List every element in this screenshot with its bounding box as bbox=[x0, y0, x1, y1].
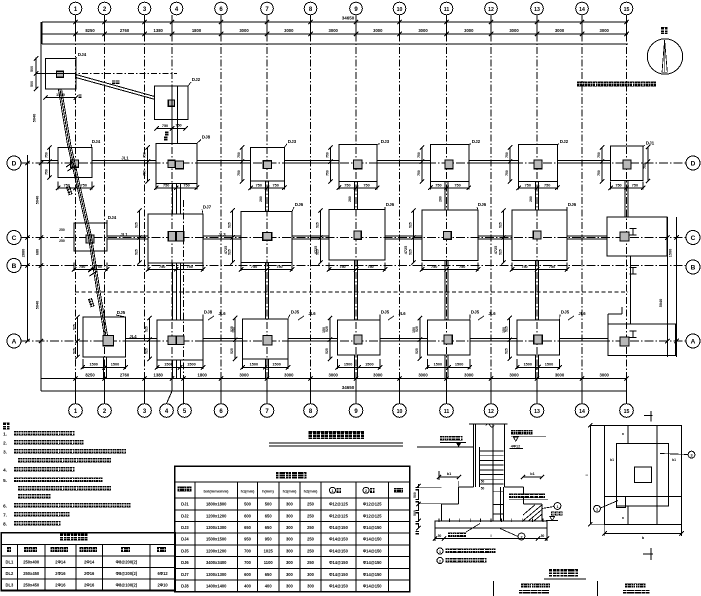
level mark outdoor -0.450 bbox=[440, 436, 462, 441]
top axis tick 15 bbox=[626, 22, 628, 34]
footing DJ4 C1 bbox=[74, 223, 107, 251]
svg-text:525: 525 bbox=[316, 222, 320, 228]
selection table headers bbox=[178, 487, 192, 492]
svg-text:750: 750 bbox=[339, 265, 345, 269]
A footing bottom dim 1500x1500 bbox=[516, 359, 518, 369]
svg-text:Φ14@150: Φ14@150 bbox=[363, 560, 382, 565]
beam stub left of D1 bbox=[41, 159, 58, 161]
svg-text:750: 750 bbox=[459, 265, 465, 269]
svg-text:1500: 1500 bbox=[56, 92, 66, 97]
svg-text:h2(mm): h2(mm) bbox=[304, 489, 318, 493]
note line cont bbox=[18, 486, 111, 491]
main title jichu jiegou pingmiantu bbox=[309, 431, 365, 439]
svg-text:JL4: JL4 bbox=[129, 334, 137, 339]
svg-text:750: 750 bbox=[549, 265, 555, 269]
footing base plate bbox=[435, 521, 547, 528]
svg-text:Φ14@150: Φ14@150 bbox=[329, 560, 348, 565]
bottom band tick 10 bbox=[399, 379, 401, 392]
axis line D bbox=[21, 162, 686, 164]
grid bubble top 8 bbox=[304, 2, 317, 15]
column of C15 bbox=[620, 232, 629, 241]
svg-text:750: 750 bbox=[143, 152, 147, 158]
note line under compass bbox=[577, 82, 656, 87]
svg-text:DJ8: DJ8 bbox=[202, 135, 211, 140]
svg-text:bxl(mmxmm): bxl(mmxmm) bbox=[204, 488, 230, 493]
svg-text:4725: 4725 bbox=[404, 246, 408, 254]
axis grid line 2 bbox=[104, 22, 106, 391]
svg-text:525: 525 bbox=[228, 222, 232, 228]
svg-text:2Φ14: 2Φ14 bbox=[55, 559, 66, 564]
axis grid line 15 bbox=[626, 22, 628, 391]
svg-text:1500: 1500 bbox=[111, 363, 119, 367]
top footing left dim bbox=[35, 58, 37, 90]
svg-text:750: 750 bbox=[276, 265, 282, 269]
svg-text:3000: 3000 bbox=[284, 373, 294, 378]
svg-text:3400x3400: 3400x3400 bbox=[206, 560, 227, 565]
svg-text:n: n bbox=[621, 517, 625, 519]
section bottom dim bbox=[435, 538, 547, 540]
auxiliary dashed axis top row bbox=[36, 73, 177, 75]
notes header zhu bbox=[3, 423, 9, 430]
svg-text:750: 750 bbox=[237, 170, 241, 176]
diagonal wall (stepped foundation) bbox=[58, 89, 104, 336]
axis grid line 14 bbox=[581, 22, 583, 391]
grid bubble bottom 9 bbox=[349, 404, 363, 418]
svg-text:12: 12 bbox=[488, 7, 494, 13]
D footing left dim bbox=[329, 147, 331, 181]
column of DJ6 C7 bbox=[263, 233, 272, 241]
svg-text:1380: 1380 bbox=[154, 28, 164, 33]
svg-text:2760: 2760 bbox=[120, 373, 130, 378]
svg-text:1500: 1500 bbox=[344, 363, 352, 367]
svg-text:300: 300 bbox=[286, 513, 294, 518]
svg-text:h1(mm): h1(mm) bbox=[283, 489, 297, 493]
svg-text:Φ14@150: Φ14@150 bbox=[363, 548, 382, 553]
plan detail inner footing edge bbox=[616, 444, 668, 506]
svg-text:1.: 1. bbox=[3, 432, 7, 437]
svg-text:C: C bbox=[12, 235, 17, 242]
svg-text:A: A bbox=[12, 339, 17, 346]
section cut symbol top bbox=[644, 415, 653, 417]
svg-text:2: 2 bbox=[439, 559, 441, 563]
axis grid line 8 bbox=[310, 22, 312, 391]
svg-text:DJ5: DJ5 bbox=[561, 310, 570, 315]
section cut symbol bottom bbox=[643, 553, 653, 555]
svg-text:Φ8@200(2): Φ8@200(2) bbox=[116, 571, 138, 576]
svg-text:2Φ16: 2Φ16 bbox=[55, 571, 66, 576]
svg-text:1300x1300: 1300x1300 bbox=[206, 525, 227, 530]
svg-text:2Φ16: 2Φ16 bbox=[84, 571, 95, 576]
note line cont bbox=[18, 494, 50, 499]
svg-text:750: 750 bbox=[325, 170, 329, 176]
svg-text:Φ14@150: Φ14@150 bbox=[329, 548, 348, 553]
C footing bottom dim 750x750 bbox=[328, 263, 330, 272]
svg-text:1500: 1500 bbox=[455, 363, 463, 367]
svg-text:3000: 3000 bbox=[555, 373, 565, 378]
section cut mark I bbox=[630, 330, 637, 332]
svg-text:DJ4: DJ4 bbox=[181, 537, 189, 542]
top axis tick 8 bbox=[310, 22, 312, 34]
A footing bottom dim 1500x1500 bbox=[82, 359, 84, 369]
svg-text:34650: 34650 bbox=[342, 16, 355, 21]
svg-text:11: 11 bbox=[444, 409, 450, 415]
plan detail outer edge bbox=[605, 425, 682, 524]
svg-text:1500: 1500 bbox=[434, 363, 442, 367]
A footing left dim bbox=[509, 318, 511, 359]
svg-text:500: 500 bbox=[244, 502, 252, 507]
svg-text:3000: 3000 bbox=[600, 28, 610, 33]
grid bubble bottom 11 bbox=[440, 404, 454, 418]
svg-text:DL1: DL1 bbox=[6, 559, 14, 564]
svg-text:4725: 4725 bbox=[314, 246, 318, 254]
svg-text:500: 500 bbox=[30, 81, 34, 87]
axis grid line 12 bbox=[490, 22, 492, 391]
auxiliary dashed line between B and A bbox=[75, 291, 628, 293]
svg-text:Φ14@150: Φ14@150 bbox=[363, 572, 382, 577]
svg-text:3000: 3000 bbox=[418, 373, 428, 378]
section dim small marks bbox=[416, 487, 419, 491]
svg-text:300: 300 bbox=[286, 560, 294, 565]
svg-text:h(mm): h(mm) bbox=[262, 489, 274, 493]
footing DJ2 top axis4 bbox=[155, 86, 188, 119]
grid bubble top 9 bbox=[350, 2, 363, 15]
svg-text:2880: 2880 bbox=[22, 249, 26, 257]
svg-text:5040: 5040 bbox=[36, 196, 40, 204]
svg-text:Φ14@150: Φ14@150 bbox=[329, 572, 348, 577]
footing DJ2 D11 bbox=[430, 144, 468, 181]
dowel ties bbox=[493, 490, 504, 492]
D footing bottom dim 750x750 bbox=[610, 182, 612, 190]
bottom text column divider 1 bbox=[493, 581, 495, 596]
svg-text:300: 300 bbox=[286, 525, 294, 530]
left dim line x41 bbox=[40, 22, 42, 391]
column of DJ8 D4 bbox=[175, 161, 183, 169]
bottom band tick 2 bbox=[104, 379, 106, 392]
svg-text:1025: 1025 bbox=[264, 548, 274, 553]
footing DJ5 A2 bbox=[83, 317, 126, 357]
svg-text:50: 50 bbox=[541, 534, 545, 538]
svg-text:300: 300 bbox=[286, 537, 294, 542]
svg-text:Φ14@150: Φ14@150 bbox=[329, 537, 348, 542]
svg-text:600: 600 bbox=[244, 513, 252, 518]
footing DJ5 A9 bbox=[338, 320, 381, 355]
svg-text:3000: 3000 bbox=[600, 373, 610, 378]
svg-text:1: 1 bbox=[556, 505, 558, 509]
wall rotated label 1 bbox=[66, 186, 73, 195]
left overall dim line x27.5 bbox=[27, 155, 29, 341]
grid bubble bottom 8 bbox=[304, 404, 318, 418]
svg-text:b1: b1 bbox=[447, 472, 451, 476]
top axis tick 6 bbox=[220, 22, 222, 34]
right footing connector edge bbox=[630, 256, 632, 324]
svg-text:750: 750 bbox=[256, 184, 262, 188]
svg-text:1500: 1500 bbox=[187, 363, 195, 367]
level mark indoor 0.000 bbox=[511, 430, 532, 434]
svg-text:DJ5: DJ5 bbox=[117, 310, 126, 315]
sloping beam label bbox=[112, 81, 119, 85]
svg-text:750: 750 bbox=[643, 163, 647, 169]
svg-text:300: 300 bbox=[286, 583, 294, 588]
A footing bottom dim 1500x1500 bbox=[426, 359, 428, 369]
svg-text:l: l bbox=[584, 474, 589, 475]
svg-text:525: 525 bbox=[230, 348, 234, 354]
svg-text:13: 13 bbox=[534, 409, 540, 415]
svg-text:DJ5: DJ5 bbox=[181, 548, 189, 553]
svg-text:2Φ14: 2Φ14 bbox=[84, 559, 95, 564]
row bubble right C bbox=[686, 231, 700, 245]
svg-text:700: 700 bbox=[244, 548, 252, 553]
section notes line 2 bbox=[437, 558, 443, 564]
grid bubble bottom 6 bbox=[214, 404, 228, 418]
svg-text:525: 525 bbox=[73, 348, 77, 354]
footing DJ8 D4 bbox=[156, 144, 197, 184]
column of DJ4 top-left bbox=[56, 71, 63, 77]
svg-text:525: 525 bbox=[409, 249, 413, 255]
C footing bottom dim 750x750 bbox=[147, 263, 149, 272]
section detail column top + break bbox=[469, 423, 508, 425]
top axis tick 3 bbox=[144, 22, 146, 34]
svg-text:14: 14 bbox=[579, 7, 585, 13]
bottom dimension band bbox=[41, 378, 627, 380]
svg-text:525: 525 bbox=[145, 348, 149, 354]
top axis tick 14 bbox=[581, 22, 583, 34]
svg-text:B: B bbox=[12, 263, 17, 270]
right dim line bbox=[676, 217, 678, 357]
footing DJ6 C15 right bbox=[607, 217, 667, 256]
column of DJ6 C9 bbox=[354, 231, 361, 239]
row bubble left B bbox=[7, 259, 21, 273]
svg-text:JL6: JL6 bbox=[578, 311, 586, 316]
plan detail leader 1 bbox=[601, 501, 619, 509]
row bubble right A bbox=[686, 334, 700, 348]
svg-text:6Φ12: 6Φ12 bbox=[157, 571, 168, 576]
svg-text:3000: 3000 bbox=[329, 28, 339, 33]
grid bubble top 1 bbox=[69, 2, 82, 15]
grid bubble bottom 12 bbox=[484, 404, 498, 418]
svg-text:750: 750 bbox=[544, 184, 550, 188]
column stirrups bbox=[480, 450, 504, 452]
A footing left dim bbox=[419, 318, 421, 359]
D footing left dim bbox=[509, 147, 511, 181]
svg-text:150: 150 bbox=[412, 327, 416, 333]
column dowels into footing bbox=[499, 487, 501, 521]
svg-text:DJ4: DJ4 bbox=[92, 139, 101, 144]
row bubble left C bbox=[7, 231, 21, 245]
selection table title bbox=[276, 472, 307, 479]
masonry hatch wedge bbox=[523, 505, 542, 521]
A15 footing step notch bbox=[608, 313, 622, 315]
svg-text:2Φ10: 2Φ10 bbox=[157, 582, 168, 587]
axis grid line 1 bbox=[75, 22, 77, 391]
svg-text:250x450: 250x450 bbox=[23, 582, 40, 587]
svg-text:3000: 3000 bbox=[464, 373, 474, 378]
top axis tick 9 bbox=[355, 22, 357, 34]
svg-text:300: 300 bbox=[286, 548, 294, 553]
C footing bottom dim 750x750 bbox=[73, 263, 75, 272]
svg-text:750: 750 bbox=[251, 265, 257, 269]
grid bubble top 4 bbox=[170, 2, 183, 15]
plan detail notch bbox=[616, 496, 625, 507]
footing DJ3 D7 bbox=[251, 147, 285, 181]
footing DJ6 C11 bbox=[422, 210, 478, 261]
beam table headers bbox=[7, 547, 11, 552]
grid bubble bottom 13 bbox=[530, 404, 544, 418]
A footing bottom dim 1500x1500 bbox=[242, 359, 244, 369]
svg-text:DL2: DL2 bbox=[6, 571, 14, 576]
section cut mark I bbox=[630, 267, 637, 269]
grid bubble top 7 bbox=[261, 2, 274, 15]
D1 left dim bbox=[49, 148, 51, 178]
svg-text:3000: 3000 bbox=[373, 373, 383, 378]
svg-text:DJ4: DJ4 bbox=[78, 52, 87, 57]
header circled 1 bbox=[330, 487, 336, 493]
D footing left dim bbox=[601, 147, 603, 181]
svg-text:700: 700 bbox=[244, 560, 252, 565]
section detail column rebar lines bbox=[475, 424, 477, 487]
svg-text:l: l bbox=[490, 534, 491, 538]
column of DJ2 top axis4 bbox=[168, 100, 174, 106]
column of DJ7 C4 bbox=[168, 232, 176, 242]
title double underline bbox=[269, 442, 403, 444]
vertical beams axis 4/5 (triple) bbox=[171, 86, 173, 143]
svg-text:525: 525 bbox=[409, 222, 413, 228]
svg-text:13: 13 bbox=[534, 7, 540, 13]
column of DJ3 D7 bbox=[263, 161, 271, 169]
column of DJ2 D13 bbox=[534, 160, 542, 169]
svg-text:3: 3 bbox=[690, 453, 692, 457]
vertical beams axis 13 bbox=[535, 182, 537, 211]
ground line outdoor bbox=[417, 446, 474, 448]
svg-text:750: 750 bbox=[183, 184, 189, 188]
axis grid line 3 bbox=[144, 22, 146, 391]
header circled 2 bbox=[363, 487, 369, 493]
svg-text:JL3: JL3 bbox=[218, 232, 226, 237]
plan detail bottom dim b bbox=[605, 532, 682, 534]
svg-text:1500: 1500 bbox=[89, 363, 97, 367]
svg-text:DJ6: DJ6 bbox=[386, 202, 395, 207]
row bubble left A bbox=[7, 334, 21, 348]
axis grid line 11 bbox=[446, 22, 448, 391]
D footing bottom dim 750x750 bbox=[518, 182, 520, 190]
svg-text:DJ6: DJ6 bbox=[181, 560, 189, 565]
top footing bottom dim bbox=[46, 97, 76, 99]
bottom band tick 6 bbox=[220, 379, 222, 392]
svg-text:DJ5: DJ5 bbox=[471, 310, 480, 315]
svg-text:Φ14@150: Φ14@150 bbox=[329, 583, 348, 588]
svg-text:5040: 5040 bbox=[36, 301, 40, 309]
svg-text:C: C bbox=[691, 235, 696, 242]
top axis tick 11 bbox=[446, 22, 448, 34]
D footing bottom dim 750x750 bbox=[57, 182, 59, 190]
svg-text:250: 250 bbox=[59, 239, 65, 243]
svg-text:12: 12 bbox=[488, 409, 494, 415]
svg-text:650: 650 bbox=[265, 513, 273, 518]
sloping beam from DJ4 to DJ2 bbox=[76, 75, 155, 97]
svg-text:50: 50 bbox=[438, 534, 442, 538]
svg-text:Φ14@150: Φ14@150 bbox=[329, 525, 348, 530]
svg-text:750: 750 bbox=[367, 265, 373, 269]
grid bubble bottom 3 bbox=[138, 404, 152, 418]
vertical beam stub below A2 bbox=[103, 357, 105, 379]
svg-text:5.: 5. bbox=[3, 478, 7, 483]
svg-text:1500: 1500 bbox=[545, 363, 553, 367]
svg-text:3000: 3000 bbox=[464, 28, 474, 33]
base plate rebar ticks bbox=[438, 519, 440, 522]
svg-text:750: 750 bbox=[505, 170, 509, 176]
top axis tick 12 bbox=[490, 22, 492, 34]
C footing left dim bbox=[232, 211, 234, 263]
svg-text:n: n bbox=[621, 433, 625, 435]
svg-text:DJ8: DJ8 bbox=[204, 310, 213, 315]
DJ2 footing bottom dim bbox=[157, 127, 186, 129]
svg-text:JL1: JL1 bbox=[120, 232, 128, 237]
svg-text:1800x1800: 1800x1800 bbox=[206, 502, 227, 507]
foundation selection table frame bbox=[175, 466, 410, 591]
building right edge line bbox=[666, 217, 668, 357]
svg-text:JL1: JL1 bbox=[121, 156, 129, 161]
bedding label C10 bbox=[509, 494, 545, 499]
footing DJ2 D13 bbox=[519, 144, 558, 181]
grid bubble top 14 bbox=[576, 2, 589, 15]
A row foundation beams JL bbox=[126, 337, 157, 339]
top footing solid axis line bbox=[36, 73, 76, 75]
svg-text:750: 750 bbox=[435, 184, 441, 188]
svg-text:750: 750 bbox=[344, 184, 350, 188]
svg-text:DL3: DL3 bbox=[6, 582, 14, 587]
column center rebar bbox=[492, 424, 494, 521]
svg-text:DJ7: DJ7 bbox=[203, 205, 212, 210]
grid bubble bottom 14 bbox=[575, 404, 589, 418]
svg-text:3000: 3000 bbox=[329, 373, 339, 378]
bottom band tick 11 bbox=[446, 379, 448, 392]
svg-text:Φ12@125: Φ12@125 bbox=[363, 502, 382, 507]
svg-text:1380: 1380 bbox=[154, 373, 164, 378]
footing steps left bbox=[459, 486, 474, 488]
vertical beams axis 9 bbox=[354, 182, 356, 210]
bottom band tick 7 bbox=[266, 379, 268, 392]
svg-text:250: 250 bbox=[307, 548, 315, 553]
C footing left dim bbox=[139, 211, 141, 263]
svg-text:3000: 3000 bbox=[373, 28, 383, 33]
svg-text:750: 750 bbox=[431, 265, 437, 269]
svg-text:750: 750 bbox=[163, 184, 169, 188]
column of DJ2 D11 bbox=[445, 160, 453, 169]
svg-text:1500: 1500 bbox=[272, 363, 280, 367]
grid bubble top 2 bbox=[98, 2, 111, 15]
svg-text:300: 300 bbox=[286, 502, 294, 507]
A footing left dim bbox=[234, 318, 236, 359]
svg-text:DJ8: DJ8 bbox=[181, 583, 189, 588]
footing DJ5 A11 bbox=[427, 320, 470, 355]
grid bubble top 6 bbox=[215, 2, 228, 15]
svg-text:525: 525 bbox=[135, 249, 139, 255]
svg-text:DJ3: DJ3 bbox=[181, 525, 189, 530]
svg-text:50: 50 bbox=[481, 480, 485, 484]
top axis tick 2 bbox=[104, 22, 106, 34]
wall rotated label 2 bbox=[88, 298, 95, 307]
svg-text:DJ6: DJ6 bbox=[568, 202, 577, 207]
column of DJ1 D15 bbox=[623, 160, 631, 169]
svg-text:1800: 1800 bbox=[198, 373, 208, 378]
svg-text:DJ1: DJ1 bbox=[181, 502, 189, 507]
grid bubble bottom 5 bbox=[178, 404, 192, 418]
svg-text:DJ5: DJ5 bbox=[291, 310, 300, 315]
footing DJ7 C4 bbox=[148, 214, 203, 263]
svg-text:525: 525 bbox=[73, 324, 77, 330]
svg-text:Φ8@200(2): Φ8@200(2) bbox=[116, 559, 138, 564]
svg-text:b1: b1 bbox=[672, 458, 676, 462]
svg-text:DJ5: DJ5 bbox=[381, 310, 390, 315]
